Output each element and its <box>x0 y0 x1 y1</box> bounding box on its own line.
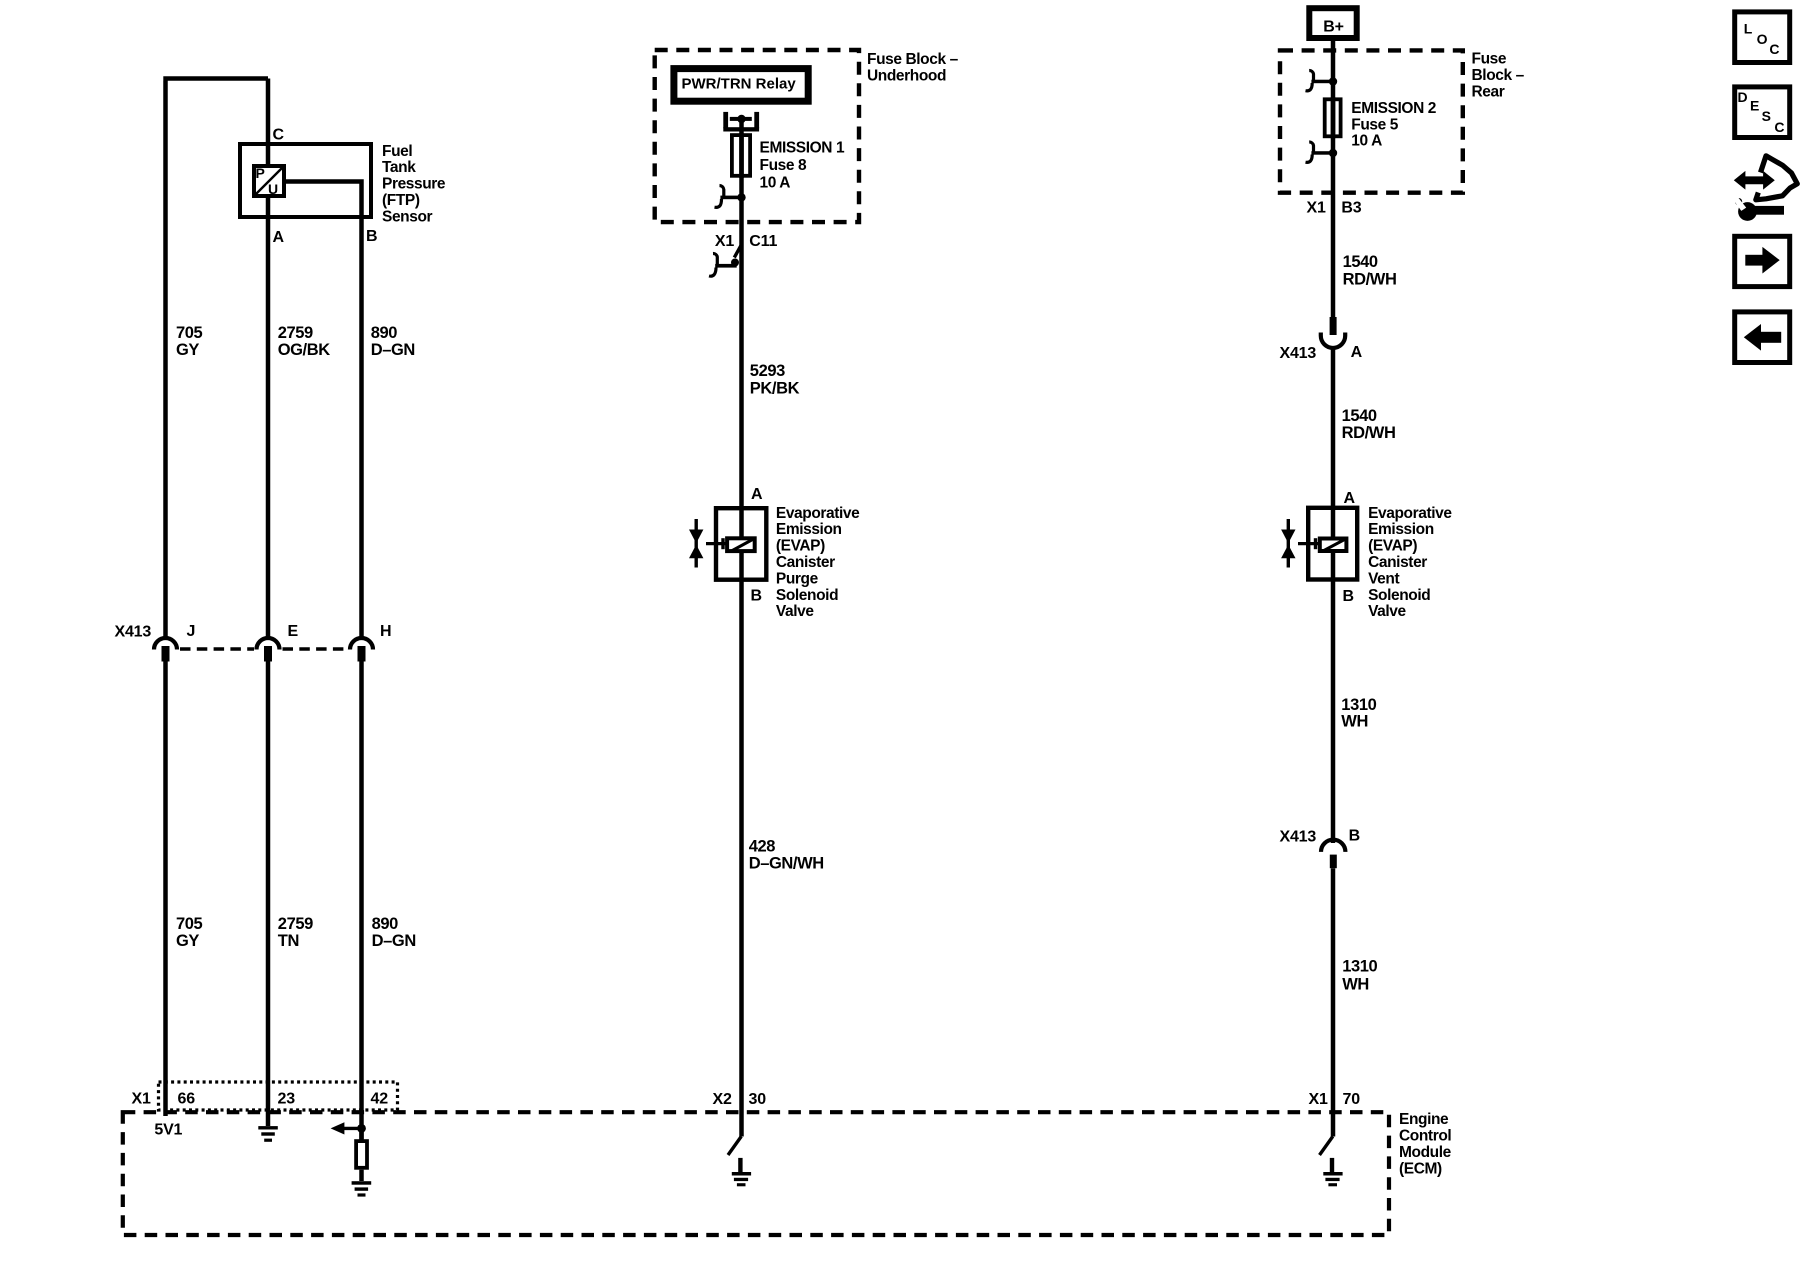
svg-text:Fuse Block –Underhood: Fuse Block –Underhood <box>867 51 959 84</box>
dashed connector tie line J-E <box>180 647 254 650</box>
wire fuse to solenoid (5293) <box>739 177 744 508</box>
purge valve symbol <box>689 519 727 568</box>
svg-text:C: C <box>1774 119 1784 135</box>
double arrow with wrench icon <box>1733 156 1797 221</box>
connector clip terminal at X1 C11 <box>709 246 741 277</box>
battery feed B+ box <box>1309 8 1356 38</box>
fuse EMISSION 2 <box>1325 97 1341 138</box>
svg-text:B+: B+ <box>1323 18 1344 35</box>
ground symbol (ECM internal, pin 30) <box>732 1158 751 1186</box>
vent solenoid coil <box>1320 539 1347 552</box>
wire sensor output B lead <box>286 182 362 638</box>
wire relay to fuse <box>739 119 744 137</box>
svg-text:PWR/TRN Relay: PWR/TRN Relay <box>682 76 797 93</box>
svg-text:H: H <box>380 623 391 640</box>
back arrow navigation box <box>1735 312 1790 363</box>
pressure transducer P/U symbol <box>254 165 284 197</box>
svg-text:S: S <box>1762 108 1771 124</box>
svg-text:66: 66 <box>178 1091 196 1108</box>
svg-text:B: B <box>366 228 377 245</box>
EVAP canister vent solenoid valve box <box>1308 508 1357 580</box>
wire 705 GY upper segment (C to X413 J) <box>163 79 268 638</box>
svg-text:B3: B3 <box>1341 199 1361 216</box>
ECM pin 30 terminal slash <box>728 1136 741 1155</box>
svg-text:C11: C11 <box>749 233 777 250</box>
svg-text:O: O <box>1757 31 1768 47</box>
svg-text:23: 23 <box>278 1091 296 1108</box>
dashed connector tie line E-H <box>283 647 348 650</box>
fuse lower clip terminal <box>715 186 746 208</box>
wire inside purge solenoid <box>739 508 744 539</box>
svg-text:B: B <box>1343 588 1354 605</box>
EVAP canister purge solenoid valve box <box>716 508 766 580</box>
fuse EMISSION 1 <box>732 133 750 178</box>
ground symbol (pin 23 internal) <box>258 1126 278 1142</box>
connector X413 pin H (female cup and male pin) <box>350 638 373 662</box>
wire B+ to fuse <box>1331 38 1336 101</box>
wire 2759 TN lower segment <box>266 662 271 1127</box>
junction node on pin 42 wire <box>357 1124 366 1133</box>
svg-text:B: B <box>1349 828 1360 845</box>
svg-text:70: 70 <box>1343 1091 1361 1108</box>
svg-text:X413: X413 <box>1280 828 1317 845</box>
connector X413 pin J (female cup and male pin) <box>154 638 177 662</box>
svg-text:X1: X1 <box>1307 199 1326 216</box>
wire solenoid B to ECM X2-30 (428) <box>739 552 744 1137</box>
svg-text:C: C <box>273 127 285 144</box>
svg-text:E: E <box>1750 98 1759 114</box>
connector X413 pin B (female cup and male pin) <box>1321 840 1345 868</box>
svg-text:X1: X1 <box>1309 1091 1328 1108</box>
svg-text:42: 42 <box>371 1091 389 1108</box>
svg-text:B: B <box>751 588 762 605</box>
svg-text:A: A <box>1344 490 1356 507</box>
svg-text:A: A <box>751 486 763 503</box>
svg-text:5V1: 5V1 <box>154 1122 182 1139</box>
purge solenoid coil <box>727 538 755 551</box>
connector X413 pin A (male pin and female cup) <box>1321 317 1345 348</box>
svg-text:D: D <box>1738 89 1748 105</box>
Fuse Block - Underhood dashed box <box>655 50 859 222</box>
wire X413 B to ECM X1-70 (1310) <box>1331 868 1336 1136</box>
svg-text:P: P <box>256 165 265 181</box>
ECM pin 70 terminal slash <box>1320 1136 1333 1155</box>
svg-text:C: C <box>1769 41 1779 57</box>
svg-text:X413: X413 <box>1280 345 1317 362</box>
svg-text:X1: X1 <box>132 1091 151 1108</box>
signal arrow (to other sheet) <box>331 1122 362 1134</box>
svg-text:X2: X2 <box>713 1091 732 1108</box>
Engine Control Module (ECM) dashed box <box>123 1112 1389 1235</box>
svg-text:705GY: 705GY <box>176 324 203 359</box>
resistor (ECM internal pull-up) <box>356 1128 367 1181</box>
wire 2759 OG/BK segment (A to X413 E) <box>266 198 271 637</box>
svg-text:A: A <box>273 229 285 246</box>
svg-text:X1: X1 <box>715 233 734 250</box>
DESC navigation box <box>1735 87 1790 138</box>
relay box PWR/TRN Relay <box>674 69 808 102</box>
FTP sensor box <box>240 144 371 217</box>
svg-text:A: A <box>1351 344 1363 361</box>
ground symbol (below resistor) <box>352 1181 372 1196</box>
svg-text:30: 30 <box>749 1091 767 1108</box>
wire 890 D-GN lower segment <box>359 662 364 1140</box>
vent valve symbol <box>1281 519 1319 568</box>
LOC navigation box <box>1735 12 1790 63</box>
connector X413 pin E (female cup and male pin) <box>257 638 280 662</box>
svg-text:705GY: 705GY <box>176 915 203 950</box>
svg-text:X413: X413 <box>115 623 152 640</box>
Fuse Block - Rear dashed box <box>1280 50 1463 192</box>
ECM X1 connector dotted box <box>159 1082 398 1110</box>
fuse lower clip terminal (rear block) <box>1306 142 1338 162</box>
fuse upper clip terminal (rear block) <box>1306 70 1338 90</box>
wire X413 A to vent solenoid (1540) <box>1331 348 1336 540</box>
svg-text:U: U <box>268 181 278 197</box>
svg-text:E: E <box>288 623 299 640</box>
svg-text:J: J <box>187 623 196 640</box>
wire 705 GY lower segment <box>163 662 168 1117</box>
forward arrow navigation box <box>1735 236 1790 286</box>
svg-text:L: L <box>1744 20 1753 36</box>
wire vent solenoid B to X413 B (1310) <box>1331 551 1336 843</box>
wire fuse to X413 A (1540) <box>1331 136 1336 319</box>
ground symbol (ECM internal, pin 70) <box>1323 1158 1342 1186</box>
relay output terminal bracket <box>723 112 759 132</box>
